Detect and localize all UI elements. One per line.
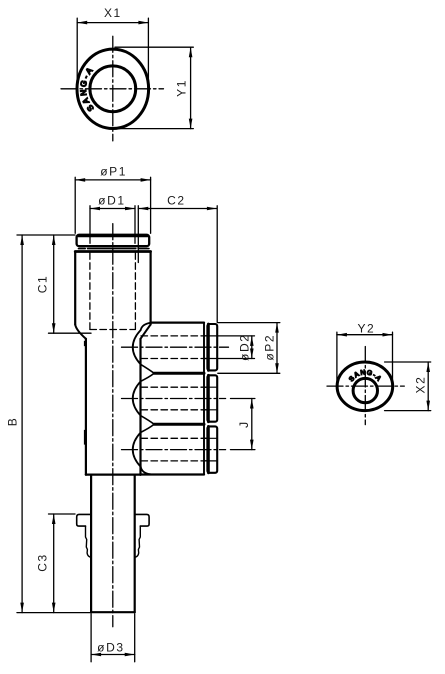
dimension Y1	[115, 47, 193, 128]
upper body left edge	[74, 252, 76, 325]
shared edge branch1/2	[154, 372, 204, 375]
branch 2 cap	[207, 375, 217, 421]
branch 3 bore hidden lines	[141, 437, 208, 439]
internal bore bottom hidden line	[90, 329, 135, 331]
mid body left edge	[85, 339, 87, 475]
svg-text:B: B	[5, 417, 19, 427]
collet ring lower edge (3 segments with notches)	[79, 248, 86, 250]
dimension Y2	[337, 332, 393, 383]
branch 1 top edge	[151, 322, 204, 324]
right clip ear	[135, 514, 149, 526]
side view horizontal centerline	[327, 385, 404, 387]
dimension X2	[385, 362, 431, 411]
side view outer ellipse	[337, 362, 393, 411]
branch 1 bore hidden lines	[141, 335, 208, 337]
branch 1 centerline	[122, 346, 229, 348]
upper body right edge	[150, 252, 152, 325]
top view outer ring (ellipse)	[77, 49, 149, 128]
top view horizontal centerline	[61, 88, 164, 90]
branch 2 body-intersection arc	[133, 381, 141, 415]
branch 2 centerline	[122, 398, 226, 400]
svg-text:øP2: øP2	[263, 334, 277, 361]
left neck chamfer	[75, 325, 86, 339]
left edge jog lower	[85, 431, 86, 445]
body bottom edge	[86, 473, 141, 475]
dimension D3	[91, 614, 135, 662]
svg-text:øD2: øD2	[238, 333, 252, 360]
dimension B	[17, 235, 91, 613]
svg-text:øD1: øD1	[98, 194, 125, 208]
top view inner bore circle	[90, 66, 136, 112]
svg-text:Y2: Y2	[357, 322, 375, 336]
branch 2 bore hidden lines	[141, 386, 208, 388]
side view vertical centerline	[364, 347, 366, 425]
shared edge branch2/3	[154, 423, 204, 426]
svg-text:X2: X2	[413, 376, 427, 394]
top cap (release ring)	[77, 235, 150, 246]
stem left edge	[90, 475, 92, 612]
left edge jog upper	[85, 342, 86, 346]
stem right edge	[134, 475, 136, 612]
branch 3 cap	[207, 426, 217, 472]
side view inner bore circle	[353, 378, 377, 402]
dimension P2	[218, 323, 280, 374]
svg-text:J: J	[237, 420, 251, 428]
body top edge	[75, 250, 150, 253]
dimension C3	[49, 514, 76, 613]
svg-text:C3: C3	[36, 553, 50, 572]
left clip blade	[86, 526, 92, 557]
left clip ear	[77, 514, 91, 526]
svg-text:Y1: Y1	[175, 79, 189, 97]
svg-text:C2: C2	[167, 194, 186, 208]
dimension X1	[77, 18, 148, 89]
stem bottom edge	[91, 611, 135, 613]
branch 3 centerline	[122, 449, 226, 451]
svg-text:X1: X1	[104, 6, 122, 20]
dimension J	[231, 399, 255, 450]
internal bore hidden line left	[89, 253, 91, 330]
svg-text:øD3: øD3	[97, 640, 124, 654]
dimension C1	[49, 235, 92, 333]
dimension P1	[75, 177, 150, 233]
svg-text:C1: C1	[36, 275, 50, 294]
branch 3 bottom-left fillet	[141, 467, 151, 475]
dimension D2	[218, 336, 255, 359]
branch cap slot lines at bore levels	[204, 336, 216, 461]
mid body right edge	[139, 339, 141, 475]
branch end face line	[203, 323, 205, 474]
wedge between branch 1 and 2	[141, 364, 155, 381]
branch 1 top-left fillet	[141, 323, 152, 330]
dimension C2	[138, 206, 217, 322]
front view vertical centerline	[112, 224, 114, 627]
svg-text:øP1: øP1	[100, 165, 127, 179]
right clip blade	[135, 526, 141, 557]
top view vertical centerline	[112, 36, 114, 141]
branch 3 bottom edge	[141, 473, 205, 475]
dimension D1	[90, 206, 135, 244]
internal bore hidden line right	[134, 253, 136, 330]
right neck chamfer	[141, 325, 151, 339]
branch 3 body-intersection arc	[133, 432, 141, 466]
wedge between branch 2 and 3	[141, 416, 155, 433]
branch 1 body-intersection arc	[133, 330, 141, 364]
branch 1 cap	[207, 324, 217, 370]
